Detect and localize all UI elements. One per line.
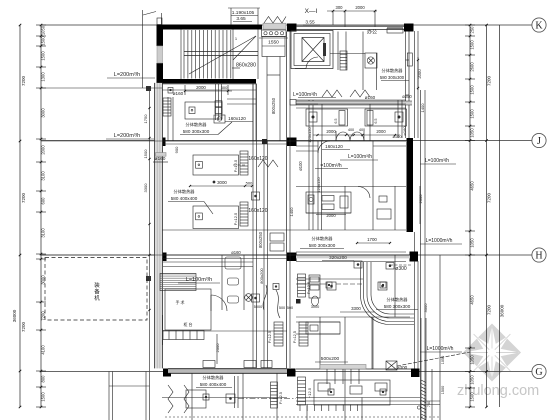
svg-text:1500: 1500 xyxy=(470,85,475,95)
svg-text:分体散热器: 分体散热器 xyxy=(186,121,208,128)
svg-text:L=100m³/h: L=100m³/h xyxy=(348,154,372,160)
svg-text:5000: 5000 xyxy=(254,305,262,309)
svg-text:1500: 1500 xyxy=(41,392,46,402)
svg-text:580 300x300: 580 300x300 xyxy=(380,75,405,80)
svg-text:6.5: 6.5 xyxy=(334,119,338,124)
svg-text:7200: 7200 xyxy=(21,321,26,332)
svg-text:3300: 3300 xyxy=(351,306,361,311)
svg-text:160x120: 160x120 xyxy=(228,116,246,121)
svg-text:3300: 3300 xyxy=(143,183,148,193)
svg-text:500: 500 xyxy=(279,306,285,310)
svg-text:1050: 1050 xyxy=(470,375,475,385)
svg-text:2000: 2000 xyxy=(215,343,220,353)
svg-text:3000: 3000 xyxy=(423,303,428,313)
svg-text:G: G xyxy=(535,367,542,378)
svg-text:160x120: 160x120 xyxy=(325,144,343,149)
svg-text:机: 机 xyxy=(94,294,100,302)
svg-text:500x200: 500x200 xyxy=(321,356,340,362)
svg-text:36000: 36000 xyxy=(12,309,17,322)
svg-text:580 300x300: 580 300x300 xyxy=(384,304,411,309)
svg-text:800x250: 800x250 xyxy=(258,231,263,248)
svg-text:ø160: ø160 xyxy=(365,95,376,100)
svg-text:36000: 36000 xyxy=(500,304,505,317)
svg-text:4100: 4100 xyxy=(41,345,46,355)
svg-text:1500: 1500 xyxy=(41,36,46,46)
svg-text:ø300: ø300 xyxy=(395,266,407,272)
svg-text:F=12.5: F=12.5 xyxy=(293,331,297,343)
svg-text:6.5: 6.5 xyxy=(374,119,378,124)
svg-text:J: J xyxy=(537,136,541,147)
svg-text:750: 750 xyxy=(427,401,431,407)
svg-text:分体散热器: 分体散热器 xyxy=(174,188,196,195)
svg-text:ø250: ø250 xyxy=(402,94,412,99)
svg-text:装: 装 xyxy=(94,281,100,289)
svg-text:600: 600 xyxy=(41,197,46,205)
svg-text:3.55: 3.55 xyxy=(305,20,315,26)
svg-text:F=12.5: F=12.5 xyxy=(279,392,283,404)
svg-text:F=12.5: F=12.5 xyxy=(268,331,272,343)
svg-text:4650: 4650 xyxy=(470,181,475,191)
svg-text:F=12.5: F=12.5 xyxy=(233,212,238,225)
svg-text:3100: 3100 xyxy=(41,228,46,238)
svg-text:1400: 1400 xyxy=(420,103,425,113)
svg-text:3000: 3000 xyxy=(311,305,319,309)
svg-text:手 术: 手 术 xyxy=(175,299,184,305)
svg-text:3.65: 3.65 xyxy=(236,16,246,22)
svg-text:1050: 1050 xyxy=(470,238,475,248)
svg-text:ø160: ø160 xyxy=(402,126,407,136)
svg-text:ø160: ø160 xyxy=(173,91,184,96)
svg-text:办公: 办公 xyxy=(367,29,377,36)
svg-text:1500: 1500 xyxy=(41,51,46,61)
svg-text:1050: 1050 xyxy=(470,355,475,365)
svg-text:4650: 4650 xyxy=(470,295,475,305)
svg-text:400: 400 xyxy=(348,128,354,132)
svg-text:160x120: 160x120 xyxy=(248,156,267,162)
svg-text:2600: 2600 xyxy=(470,62,475,72)
svg-text:备: 备 xyxy=(94,288,100,296)
svg-text:分体散热器: 分体散热器 xyxy=(203,374,225,381)
svg-text:L=100m³/h: L=100m³/h xyxy=(186,277,212,283)
svg-text:800: 800 xyxy=(41,375,46,383)
svg-text:7200: 7200 xyxy=(487,192,492,203)
svg-text:500: 500 xyxy=(246,181,253,186)
svg-text:1500: 1500 xyxy=(143,149,148,159)
svg-text:320x200: 320x200 xyxy=(329,255,347,260)
svg-text:2000: 2000 xyxy=(376,129,386,134)
svg-text:1050: 1050 xyxy=(470,128,475,138)
svg-text:1500: 1500 xyxy=(441,386,445,394)
svg-text:1700: 1700 xyxy=(367,237,377,242)
svg-text:860x280: 860x280 xyxy=(236,63,256,69)
svg-text:L=1000m³/h: L=1000m³/h xyxy=(426,238,453,244)
svg-text:2000: 2000 xyxy=(41,145,46,155)
svg-text:900: 900 xyxy=(174,146,179,153)
svg-text:H: H xyxy=(535,250,542,261)
svg-text:300: 300 xyxy=(336,5,344,10)
svg-text:分体散热器: 分体散热器 xyxy=(387,296,409,303)
svg-text:1500: 1500 xyxy=(470,392,475,402)
svg-text:3000: 3000 xyxy=(217,180,227,185)
svg-text:580 400x400: 580 400x400 xyxy=(171,196,198,201)
svg-text:L=200m³/h: L=200m³/h xyxy=(114,72,140,78)
svg-text:800x250: 800x250 xyxy=(271,97,276,114)
svg-text:1.190x105: 1.190x105 xyxy=(232,10,255,16)
svg-text:柜 台: 柜 台 xyxy=(183,321,192,327)
svg-text:2000: 2000 xyxy=(196,85,206,90)
svg-text:7200: 7200 xyxy=(487,304,492,315)
svg-text:1050: 1050 xyxy=(41,25,46,35)
svg-text:ø160: ø160 xyxy=(231,250,241,255)
svg-text:分体散热器: 分体散热器 xyxy=(382,67,404,74)
svg-text:F=12.5: F=12.5 xyxy=(233,159,238,172)
svg-text:800x200: 800x200 xyxy=(259,268,264,284)
svg-text:250: 250 xyxy=(470,26,475,34)
svg-text:2000: 2000 xyxy=(326,213,336,218)
svg-text:1500: 1500 xyxy=(470,40,475,50)
svg-text:L=100m³/h: L=100m³/h xyxy=(293,92,317,98)
svg-text:7200: 7200 xyxy=(21,192,26,203)
svg-text:3000: 3000 xyxy=(41,108,46,118)
svg-text:分体散热器: 分体散热器 xyxy=(312,235,334,242)
svg-text:1050: 1050 xyxy=(441,356,445,364)
svg-text:120x120: 120x120 xyxy=(307,127,312,143)
svg-text:1750: 1750 xyxy=(143,114,148,124)
svg-text:3100: 3100 xyxy=(41,171,46,181)
svg-text:ø100: ø100 xyxy=(298,161,303,171)
svg-text:580 300x300: 580 300x300 xyxy=(183,129,210,134)
svg-text:2000: 2000 xyxy=(355,5,365,10)
svg-text:K: K xyxy=(535,20,543,31)
svg-text:7200: 7200 xyxy=(487,75,492,86)
svg-text:ø300: ø300 xyxy=(397,365,408,370)
svg-text:−12.5: −12.5 xyxy=(307,387,312,398)
svg-text:ø160: ø160 xyxy=(155,156,166,162)
svg-text:L=100m³/h: L=100m³/h xyxy=(425,158,449,164)
svg-text:500: 500 xyxy=(287,306,293,310)
svg-text:580 400x400: 580 400x400 xyxy=(200,382,227,387)
svg-text:120x120: 120x120 xyxy=(316,177,321,193)
svg-text:1400: 1400 xyxy=(289,207,294,217)
svg-text:1500: 1500 xyxy=(470,109,475,119)
svg-text:580 300x300: 580 300x300 xyxy=(309,243,336,248)
svg-text:=100m³/h: =100m³/h xyxy=(320,163,341,169)
svg-text:7200: 7200 xyxy=(21,75,26,86)
svg-text:1550: 1550 xyxy=(268,40,279,46)
svg-text:2000: 2000 xyxy=(326,129,336,134)
svg-text:X—I: X—I xyxy=(305,8,318,15)
svg-text:160x120: 160x120 xyxy=(248,208,267,214)
svg-text:L=200m³/h: L=200m³/h xyxy=(114,133,140,139)
svg-text:1300: 1300 xyxy=(41,72,46,82)
